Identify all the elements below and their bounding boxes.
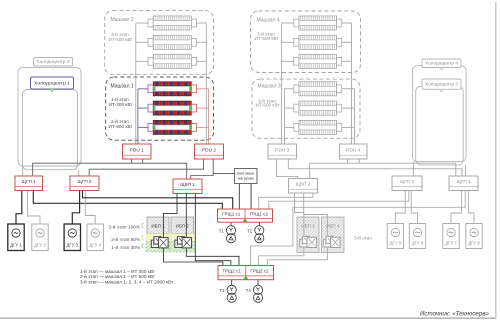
wire ЩГП4 bus to ГРЩ2 с2 [251,191,466,266]
genset ДГУ 4 [87,224,103,251]
svg-text:PDU 1: PDU 1 [130,147,144,153]
wire PDU1 feed A to hall 1 rows (purple) [137,89,139,145]
wire ЩГП2 to ДГУ4 (future) [85,191,95,225]
rack row hall2-2 [148,35,197,49]
svg-text:ГРЩ1 с2: ГРЩ1 с2 [250,212,269,217]
wire ГРЩ1 to T2 [258,222,260,226]
wire ЩБП1 through ИБП1 to ГРЩ2 с1 [163,194,223,266]
wire ЩБП2 tie to ГРЩ1 с2 [259,193,313,209]
stage load labels [109,223,144,251]
svg-text:ЩГП 3: ЩГП 3 [400,179,414,184]
rack row hall4-1 [294,16,342,30]
legend stages [80,268,174,285]
wire ГРЩ2 to T4 [257,280,259,286]
wire chiller3 drop to ЩГП3 [413,162,415,176]
wire PDU4 stub right [358,159,360,163]
svg-text:Холодоцентр 3: Холодоцентр 3 [425,82,459,87]
wire hall3 row stub right [342,107,355,109]
svg-text:2-й этап — машзал 1 – ИТ 500 к: 2-й этап — машзал 1 – ИТ 500 кВт [80,273,156,279]
wire ЩГП4 to ДГУ7 [451,191,462,224]
svg-text:ИТ-300 кВт: ИТ-300 кВт [109,102,134,107]
UPS symbol U1 [151,237,168,248]
switchboard ЩБП 1 [173,179,202,194]
wire household loads feed 1 [238,184,240,210]
household loads box [235,169,258,184]
svg-text:Т3: Т3 [219,288,225,293]
transformer T4 [246,285,263,302]
wire ЩГП3 to ДГУ6 [411,191,417,224]
svg-text:Т4: Т4 [246,288,252,293]
wire ЩГП2 bus to ГРЩ1 с1 [83,191,233,210]
switchboard ЩГП 1 [15,176,43,191]
svg-text:ИБП 2: ИБП 2 [176,224,190,229]
wire PDU1 stub left [131,159,133,163]
wire hall1 row stub red [196,88,208,90]
svg-text:ДГУ 8: ДГУ 8 [468,240,480,245]
svg-text:ЩБП 1: ЩБП 1 [180,182,195,187]
machine hall 3 boundary [252,79,360,138]
switchboard ЩГП 2 [70,176,99,191]
wire hall1 row stub purple [138,126,148,128]
svg-text:Т1: Т1 [219,228,225,233]
svg-text:Машзал 4: Машзал 4 [257,18,280,24]
rack row hall1-1 [148,82,197,96]
genset ДГУ 7 [443,224,459,249]
rack row hall4-2 [294,35,342,49]
wire hall4 row stub [282,60,295,62]
wire hall4 row stub [282,22,295,24]
main switchboard ГРЩ1 [218,209,273,222]
svg-text:ГРЩ2 с1: ГРЩ2 с1 [223,269,242,274]
switchboard ЩГП 3 [392,176,422,191]
wire hall3 row stub right [342,88,355,90]
UPS symbol U3 [300,236,317,247]
svg-text:PDU 3: PDU 3 [275,147,289,153]
wire ЩГП2 to ДГУ3 [72,191,79,225]
wire chiller1 drop to ЩГП1 [22,166,24,176]
svg-text:Холодоцентр 1: Холодоцентр 1 [34,81,71,86]
svg-text:ДГУ 6: ДГУ 6 [412,240,424,245]
wire ГРЩ1 to T1 [230,222,232,226]
rack row hall3-3 [294,120,342,134]
wire hall2 row stub [136,60,148,62]
wire ЩГП3 to ДГУ5 [395,191,405,224]
svg-text:Холодоцентр 2: Холодоцентр 2 [37,59,71,64]
wire ЩГП1 bus to ГРЩ1 с1 [33,191,222,210]
wire PDU2 stub to ЩБП1 [191,159,214,179]
svg-text:1-й этап 30%: 1-й этап 30% [111,244,141,251]
UPS ИБП2 stage bands [170,217,194,252]
svg-text:3-й этап: 3-й этап [354,234,372,241]
UPS ИБП3 (future) [297,217,319,253]
wire hall4 row stub right [342,41,352,43]
switchboard ЩБП 2 [289,179,318,194]
wire hall2 row stub right [196,60,206,62]
wire hall3 row stub [285,107,295,109]
machine hall 1 boundary [106,77,214,140]
genset ДГУ 3 [64,224,80,251]
genset ДГУ 1 [8,224,24,251]
wire hall1 row stub red [196,126,208,128]
transformer T1 [219,226,236,243]
PDU 2 [195,144,224,159]
svg-text:ЩГП 4: ЩГП 4 [457,179,471,184]
wire PDU4 feed to hall 3 rows [354,89,356,145]
wire ЩБП1 through ИБП2 to ГРЩ2 с1 [186,194,239,266]
svg-text:PDU 2: PDU 2 [202,147,216,153]
transformer T3 [219,285,236,302]
wire hall3 row stub right [342,126,355,128]
UPS ИБП1 stage bands [146,217,170,252]
PDU 4 [340,144,368,159]
wire PDU3 stub to ЩБП2 [276,159,297,179]
rack row hall1-3 [148,120,197,134]
svg-text:ДГУ 7: ДГУ 7 [445,240,457,245]
svg-text:1-й этап — машзал 1 – ИТ 300 к: 1-й этап — машзал 1 – ИТ 300 кВт [80,268,156,274]
svg-text:Машзал 2: Машзал 2 [111,17,134,23]
node Холодоцентр 2 [34,58,73,69]
wire hall4 row stub right [342,22,352,24]
wire ГРЩ2 to T3 [231,280,233,286]
wire ЩБП2 through ИБП4 to ГРЩ2 с2 [267,193,327,266]
svg-text:Машзал 1: Машзал 1 [111,84,134,90]
chiller plant building 1 outline [23,90,78,170]
svg-text:PDU 4: PDU 4 [346,147,360,153]
UPS symbol U4 [323,236,340,247]
rack row hall2-3 [148,54,197,68]
node Холодоцентр 3 [422,79,461,92]
svg-text:ИБП 4: ИБП 4 [326,224,340,229]
svg-text:ДГУ 5: ДГУ 5 [390,240,402,245]
svg-text:Холодоцентр 4: Холодоцентр 4 [425,61,459,66]
wire PDU1 stub right [142,159,144,163]
chiller plant building 4 outline [412,66,466,162]
genset ДГУ 8 [466,224,482,249]
transformer T2 [247,226,264,243]
wire PDU2 feed B to hall 1 rows (red) [207,89,209,145]
svg-text:ДГУ 2: ДГУ 2 [34,242,46,247]
wire hall2 row stub [136,41,148,43]
wire ЩГП1 to ДГУ1 [16,191,22,225]
machine hall 2 boundary [105,11,214,75]
wire chiller4 drop to ЩГП4 [465,165,467,176]
PDU 3 [268,144,297,159]
svg-text:Т2: Т2 [247,228,253,233]
chiller plant building 3 outline [416,86,464,164]
UPS symbol U2 [175,237,192,248]
main switchboard ГРЩ2 [218,266,274,280]
wire ЩГП3 bus to ГРЩ1 с2 [269,191,409,210]
svg-text:ГРЩ1 с1: ГРЩ1 с1 [222,212,241,217]
switchboard ЩГП 4 [449,176,478,191]
rack row hall3-2 [294,101,342,115]
genset ДГУ 6 [409,224,425,249]
svg-text:ИТ-500 кВт: ИТ-500 кВт [109,37,134,42]
rack row hall4-3 [294,54,342,68]
wire hall4 row stub [282,41,295,43]
wire hall3 row stub [285,88,295,90]
svg-text:ДГУ 4: ДГУ 4 [89,242,101,247]
wire PDU4 feed to hall 4 rows [351,23,353,145]
wire ЩГП2 rail to PDU2 [89,159,203,176]
svg-text:ИТ-500 кВт: ИТ-500 кВт [255,36,280,41]
svg-text:ЩГП 1: ЩГП 1 [22,179,36,184]
svg-text:ГРЩ2 с2: ГРЩ2 с2 [250,269,269,274]
machine hall 4 boundary [251,11,361,73]
wire hall1 row stub purple [138,107,148,109]
rack row hall3-1 [294,82,342,96]
PDU 1 [123,144,152,159]
svg-text:Источник: «Техносерв»: Источник: «Техносерв» [420,311,490,317]
wire hall1 row stub red [196,107,208,109]
svg-text:Машзал 3: Машзал 3 [258,84,281,90]
wire ЩГП1 rail to ЩБП1 [33,163,187,179]
node Холодоцентр 4 [422,59,461,70]
wire ЩГП4 to ДГУ8 [468,191,474,224]
wire household loads feed 2 [250,184,252,210]
genset ДГУ 2 [32,224,48,251]
wire PDU3 feed to hall 4 rows [281,23,283,145]
rack row hall1-2 [148,101,197,115]
svg-text:3-й этап 100%: 3-й этап 100% [109,224,141,231]
wire ЩГП4 rail to ЩБП2 [310,163,456,179]
node Холодоцентр 1 [31,77,74,92]
svg-text:ЩГП 2: ЩГП 2 [78,179,92,184]
wire hall2 row stub right [196,41,206,43]
svg-text:ИТ-500 кВт: ИТ-500 кВт [109,124,134,129]
svg-text:нагрузки: нагрузки [238,175,254,180]
svg-text:ДГУ 3: ДГУ 3 [67,242,79,247]
wire ЩБП2 through ИБП3 to ГРЩ2 с2 [258,193,304,266]
wire hall2 row stub right [196,22,206,24]
wire PDU2 branch to household loads [213,172,234,174]
svg-text:ИТ-500 кВт: ИТ-500 кВт [256,103,281,108]
wire hall1 row stub purple [138,88,148,90]
chiller plant building 2 outline [18,67,81,166]
wire ЩБП1 bypass to ГРЩ2 с1 [195,194,231,266]
svg-text:ДГУ 1: ДГУ 1 [10,242,22,247]
wire hall2 row stub [136,22,148,24]
UPS ИБП4 (future) [322,217,345,253]
rack row hall2-1 [148,16,197,30]
wire hall4 row stub right [342,60,352,62]
wire ЩГП1 to ДГУ2 (future) [28,191,40,225]
wire PDU4 stub left [347,159,349,163]
wire hall3 row stub [285,126,295,128]
svg-text:3-й этап — машзал 1, 2, 3, 4 –: 3-й этап — машзал 1, 2, 3, 4 – ИТ 2000 к… [80,279,174,285]
wire PDU1 feed A to hall 2 rows [135,23,137,145]
wire PDU2 feed B to hall 2 rows [205,23,207,145]
svg-text:2-й этап 50%: 2-й этап 50% [111,236,141,243]
svg-text:ЩБП 2: ЩБП 2 [296,182,311,187]
genset ДГУ 5 [387,224,403,249]
wire PDU3 feed to hall 3 rows [284,89,286,145]
wire chiller2 drop to ЩГП2 [78,170,80,176]
wire PDU3 stub to ЩГП4 [288,159,462,176]
